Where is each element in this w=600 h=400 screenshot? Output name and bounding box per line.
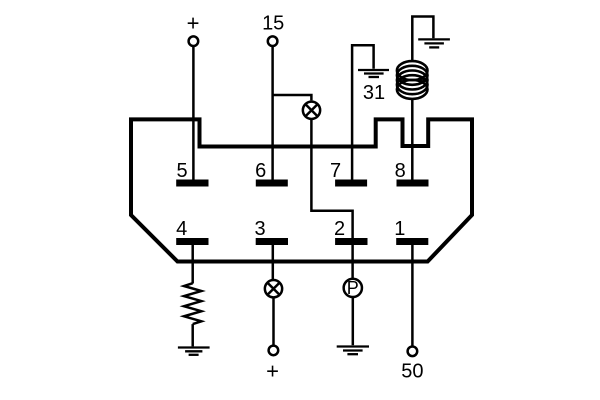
svg-text:6: 6 <box>255 160 266 182</box>
pin 7 <box>335 180 367 187</box>
pin 5 <box>176 180 208 187</box>
wire coil to ground top right <box>412 17 433 63</box>
terminal circle + bottom <box>269 346 279 356</box>
svg-text:7: 7 <box>330 160 341 182</box>
pin 8 <box>397 180 429 187</box>
wire pin 8 to coil <box>411 98 414 180</box>
wire lamp to pin 2 (jog) <box>311 119 352 238</box>
pin 4 <box>176 238 208 245</box>
svg-text:2: 2 <box>334 218 345 240</box>
terminal circle 15 <box>268 36 278 46</box>
terminal circle 50 <box>408 347 418 357</box>
svg-text:+: + <box>266 358 279 383</box>
svg-text:3: 3 <box>254 218 265 240</box>
ground top right <box>418 39 450 47</box>
svg-text:50: 50 <box>401 361 423 383</box>
wire P to ground <box>352 297 355 345</box>
svg-text:+: + <box>187 11 200 36</box>
svg-text:15: 15 <box>262 13 284 35</box>
svg-text:31: 31 <box>363 82 385 104</box>
coil L1 <box>397 61 428 99</box>
svg-text:5: 5 <box>176 160 187 182</box>
wire pin 4 to resistor <box>191 245 194 284</box>
wire pin 1 to terminal 50 <box>411 245 414 346</box>
relay body outline <box>131 119 472 261</box>
pressure switch P <box>344 278 362 298</box>
wire pin 3 to lamp <box>272 245 275 280</box>
ground under P <box>337 347 369 355</box>
wire + terminal to pin 5 <box>192 47 195 180</box>
indicator lamp bottom <box>265 280 282 297</box>
wire pin 7 to ground 31 <box>352 45 374 180</box>
pin 6 <box>256 180 288 187</box>
svg-text:4: 4 <box>176 218 187 240</box>
ground 31 <box>358 70 389 77</box>
pin 3 <box>256 238 288 245</box>
svg-text:P: P <box>347 278 359 298</box>
pin 1 <box>396 238 428 245</box>
wire pin 2 to pressure gauge <box>351 245 354 279</box>
indicator lamp top <box>303 102 320 119</box>
wire lamp to + terminal bottom <box>272 297 275 345</box>
wire resistor to ground <box>191 324 194 346</box>
wire 15 terminal to pin 6 <box>271 47 274 180</box>
pin 2 <box>335 238 367 245</box>
ground under resistor <box>178 348 210 355</box>
svg-text:1: 1 <box>394 218 405 240</box>
svg-text:8: 8 <box>395 160 406 182</box>
resistor R1 <box>184 283 201 324</box>
terminal circle + <box>189 36 199 46</box>
wire branch 15 to indicator lamp <box>273 95 312 100</box>
